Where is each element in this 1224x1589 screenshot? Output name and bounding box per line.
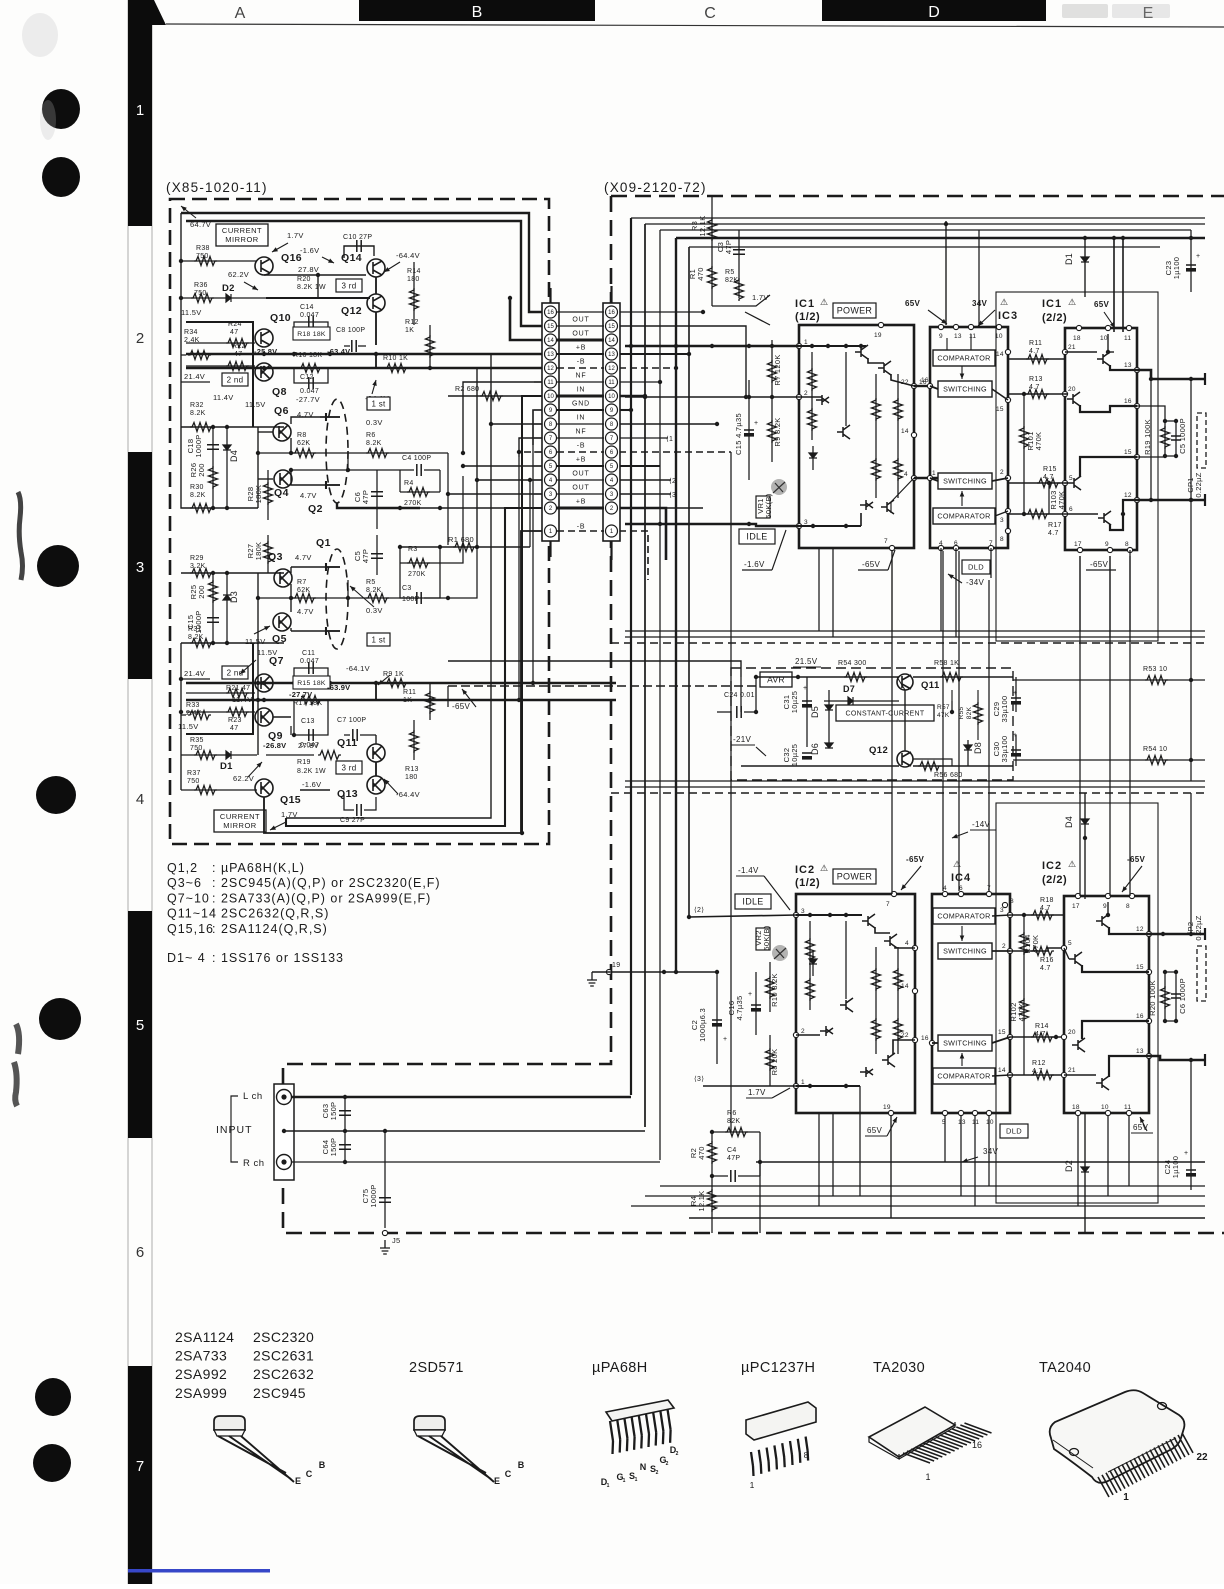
svg-text:12: 12 [1124,492,1132,499]
svg-text:2: 2 [804,390,808,397]
svg-text:Q3~6: Q3~6 [167,876,202,890]
svg-text:8: 8 [1010,898,1014,905]
svg-text:0.22µZ: 0.22µZ [1194,915,1203,940]
wire ic11 to ic21 risers [891,631,893,894]
svg-text:E: E [295,1476,301,1486]
svg-text:C8 100P: C8 100P [336,327,365,334]
wire right rails [1150,379,1152,500]
svg-text:470K: 470K [1034,432,1043,451]
switching box 2 [938,473,992,489]
svg-text:7: 7 [884,538,888,545]
ground J5 [382,1230,387,1235]
svg-text:17: 17 [1074,541,1082,548]
IC1 1/2 outline [799,325,914,548]
svg-text:R37: R37 [187,770,201,777]
svg-text:9: 9 [1103,903,1107,910]
svg-text:C11: C11 [302,650,315,657]
svg-text:13: 13 [547,352,554,358]
svg-text:D2: D2 [222,283,235,294]
wire IC1 bottom drops [818,548,820,631]
svg-text:R38: R38 [196,245,210,252]
svg-text:D1: D1 [220,761,233,772]
resistor R15 18K box [293,676,330,689]
svg-text:0.22µZ: 0.22µZ [1194,472,1203,497]
svg-text:: µPA68H(K,L): : µPA68H(K,L) [212,861,305,875]
wire left rail bottom [180,643,182,755]
jack L ch [277,1090,292,1105]
svg-text:62K: 62K [297,440,310,447]
svg-text:Q12: Q12 [341,305,362,317]
comparator box 4 [933,1068,995,1084]
wire q16 to q14 row [264,274,366,276]
wire IC1 pin22 to IC3 [914,385,930,387]
svg-text:D: D [928,4,940,21]
svg-text:R29: R29 [190,555,204,562]
wire thick row A [186,353,542,355]
faint stamp top right [1062,4,1108,18]
svg-text:8.2K: 8.2K [188,634,204,641]
svg-text:47: 47 [234,351,242,358]
svg-text:1K: 1K [405,327,414,334]
wire fan pin12 [476,368,478,547]
svg-text:2: 2 [136,330,144,347]
svg-text:65V: 65V [905,299,920,308]
svg-text:82K: 82K [966,706,973,719]
IC1 internals [799,345,866,347]
svg-text:⚠: ⚠ [820,297,828,307]
svg-text:10µ25: 10µ25 [790,744,799,767]
svg-text:3.2K: 3.2K [190,563,206,570]
wire thick row A low [186,682,616,684]
label 3rd stage low [336,761,362,774]
wire right fan extras [619,311,703,313]
IC1 pin19 [878,322,883,327]
svg-text:21: 21 [1068,1067,1076,1074]
svg-text:C: C [306,1469,313,1479]
svg-text:6: 6 [1069,506,1073,513]
svg-text:11: 11 [547,380,554,386]
svg-text:µPA68H: µPA68H [592,1360,648,1376]
svg-text:-14V: -14V [972,820,990,829]
svg-text:A: A [235,5,246,22]
svg-text:9: 9 [1105,541,1109,548]
svg-text:+: + [754,420,758,427]
svg-text:R11: R11 [403,689,416,696]
svg-text:C6 1000P: C6 1000P [1178,978,1187,1014]
wire fan pin4 [477,479,542,481]
svg-text:+: + [1196,253,1200,260]
svg-text:D2: D2 [1064,1160,1074,1172]
svg-text:13: 13 [954,333,962,340]
svg-text:4.7V: 4.7V [300,491,317,500]
svg-text:8.2K: 8.2K [190,492,206,499]
svg-text:8: 8 [1126,903,1130,910]
wire left strip stubs [534,311,542,313]
svg-text:16: 16 [608,310,615,316]
wire L ch line [292,1096,631,1099]
IC3 inner wires [946,338,948,350]
svg-text:1000µ6.3: 1000µ6.3 [698,1008,707,1042]
svg-text:4.7V: 4.7V [297,607,314,616]
svg-text:R53 10: R53 10 [1143,666,1167,673]
svg-text:33µ100: 33µ100 [1000,696,1009,723]
svg-text:: 2SC945(A)(Q,P) or 2SC2320(E,: : 2SC945(A)(Q,P) or 2SC2320(E,F) [212,876,441,890]
wire feed pin2 [625,396,799,398]
svg-text:15: 15 [998,1029,1006,1036]
svg-text:1: 1 [804,339,808,346]
svg-text:3: 3 [804,519,808,526]
svg-text:R5: R5 [725,269,735,276]
svg-text:47: 47 [230,329,238,336]
svg-text:62.2V: 62.2V [228,270,249,279]
svg-text:19: 19 [883,1104,891,1111]
svg-text:Q2: Q2 [308,503,323,515]
svg-text:2SC945: 2SC945 [253,1385,306,1401]
svg-text:R31: R31 [188,626,202,633]
svg-text:Q13: Q13 [337,788,358,800]
svg-text:Q12: Q12 [869,745,888,756]
svg-text:⚠: ⚠ [820,863,828,873]
svg-text:2SA733: 2SA733 [175,1348,227,1364]
wire band crossing verticals IC3-IC4 [942,551,944,891]
wire row r1 to strip [529,480,531,547]
svg-text:3: 3 [136,559,144,576]
svg-text:D3: D3 [229,591,239,603]
INPUT connector block [274,1084,294,1180]
svg-text:6: 6 [954,540,958,547]
svg-text:R35: R35 [190,737,204,744]
svg-text:IC3: IC3 [998,310,1018,322]
svg-text:21: 21 [1068,344,1076,351]
svg-text:OUT: OUT [572,485,589,492]
svg-text:12: 12 [1136,926,1144,933]
svg-text:R2 680: R2 680 [455,386,479,393]
svg-text:34V: 34V [983,1147,998,1156]
svg-text:C4: C4 [727,1147,737,1154]
svg-text:27.8V: 27.8V [298,741,319,750]
wire right rails b [1190,793,1192,934]
svg-text:0.3V: 0.3V [366,418,383,427]
svg-text:750: 750 [187,778,200,785]
svg-text:2 nd: 2 nd [227,375,244,384]
svg-text:-B: -B [577,443,586,450]
svg-text:R14: R14 [1035,1023,1049,1030]
svg-text:1: 1 [932,470,936,477]
svg-text:4.7V: 4.7V [295,553,312,562]
comparator box 2 [933,508,995,524]
svg-text:11: 11 [1124,335,1131,342]
svg-text:: 1SS176 or 1SS133: : 1SS176 or 1SS133 [212,951,344,965]
svg-text:-1.6V: -1.6V [302,780,321,789]
svg-text:(X85-1020-11): (X85-1020-11) [166,180,268,195]
grid bar D [822,0,1046,21]
svg-text:R13: R13 [405,766,419,773]
svg-text:TA2030: TA2030 [873,1360,925,1376]
svg-text:-27.7V: -27.7V [296,395,320,404]
svg-text:1K: 1K [403,697,412,704]
wire IC22 thick out 13b [1149,1056,1205,1060]
wire fan pin11 [463,382,542,453]
svg-text:E: E [494,1476,500,1486]
svg-text:B: B [319,1460,326,1470]
svg-text:0.047: 0.047 [300,388,319,395]
wire q11 q12 link [904,690,906,751]
svg-text:14: 14 [996,351,1004,358]
wire Q11 Q13 chain [375,762,377,776]
svg-text:21.4V: 21.4V [184,669,205,678]
wire R ch line [292,1161,660,1163]
svg-text:IC4: IC4 [951,872,971,884]
svg-text:2: 2 [656,1470,659,1476]
uPC1237H SIP package drawing [746,1402,816,1440]
svg-text:POWER: POWER [837,872,873,882]
svg-text:4.7µ35: 4.7µ35 [735,996,744,1021]
AVR label [760,672,792,687]
TA2040 package drawing [1050,1390,1185,1483]
svg-text:DLD: DLD [968,563,984,572]
svg-text:470: 470 [696,267,705,280]
IC1 pin14 [911,432,916,437]
svg-text:COMPARATOR: COMPARATOR [937,354,990,363]
svg-text:Q6: Q6 [274,405,289,417]
svg-text:2.4K: 2.4K [184,337,200,344]
TA2030 package drawing [869,1407,955,1457]
svg-text:IN: IN [577,415,586,422]
svg-text:3: 3 [1000,907,1004,914]
svg-text:R18 18K: R18 18K [297,331,326,338]
svg-text:100P: 100P [402,596,420,603]
svg-text:14: 14 [547,338,554,344]
svg-text:2SA992: 2SA992 [175,1366,227,1382]
svg-text:34V: 34V [972,299,987,308]
svg-text:22: 22 [901,1032,909,1039]
svg-text:-1.4V: -1.4V [738,866,759,875]
svg-text:C14: C14 [300,304,314,311]
svg-text:16: 16 [547,310,554,316]
component CP2 0.22u [1197,946,1206,1001]
svg-text:11: 11 [969,333,976,340]
svg-text:R3: R3 [408,546,418,553]
svg-text:16: 16 [1124,398,1132,405]
wire bus risers right [945,221,947,325]
svg-text:2: 2 [666,1461,669,1467]
svg-text:⚠: ⚠ [1000,297,1008,307]
top ruler line [166,24,1224,27]
svg-text:17: 17 [1072,903,1080,910]
svg-text:15: 15 [1136,964,1144,971]
svg-text:19: 19 [612,962,620,969]
wire thick row B low [186,699,616,701]
svg-text:3: 3 [1000,517,1004,524]
label 2nd stage low [222,666,248,679]
wire fan pin14 [510,298,542,340]
svg-text:D8: D8 [973,742,983,754]
wire IC12 thick out 13 [1137,370,1205,379]
wire IC1 pin4 to SW2 [914,477,941,479]
svg-text:8: 8 [804,1450,809,1460]
constant current label [836,705,934,721]
wire -65V long dashed [788,661,790,686]
uPA68H SIP package drawing [606,1400,674,1421]
svg-text:D1~ 4: D1~ 4 [167,951,206,965]
wire mid band row [740,677,742,712]
svg-text:1µ100: 1µ100 [1172,257,1181,280]
svg-text:2: 2 [1002,943,1006,950]
svg-text:IC1: IC1 [795,298,815,310]
svg-text:IC2: IC2 [1042,860,1062,872]
svg-text:Q16: Q16 [281,252,302,264]
svg-text:IC2: IC2 [795,864,815,876]
wire fan pin7 [519,438,542,457]
svg-text:R11: R11 [1029,340,1042,347]
svg-text:-64.4V: -64.4V [396,251,420,260]
wire tag 19 ground [606,969,611,974]
svg-text:⟨1: ⟨1 [666,435,673,443]
svg-text:14: 14 [998,1067,1006,1074]
svg-text:TA2040: TA2040 [1039,1360,1091,1376]
wire fan pin10 [522,396,542,833]
svg-text:150P: 150P [329,1138,338,1157]
wire Q14-Q12 [375,277,377,294]
wire IC22 thick out 12b [1149,933,1205,936]
svg-text:65V: 65V [1133,1123,1148,1132]
svg-text:+: + [1184,1150,1188,1157]
wire fan pin8 [491,423,542,425]
svg-text:⟨3: ⟨3 [669,491,676,499]
svg-text:R16: R16 [1040,957,1054,964]
svg-text:-1.6V: -1.6V [300,246,319,255]
svg-text:4.7: 4.7 [1029,348,1040,355]
svg-text:-63.9V: -63.9V [327,683,350,692]
wire IC3 bottom drops [940,548,942,631]
IC3 outline [930,327,1008,548]
svg-text:8.2K: 8.2K [190,410,206,417]
svg-text:µPC1237H: µPC1237H [741,1360,815,1376]
svg-text:15: 15 [547,324,554,330]
svg-text:Q10: Q10 [270,312,291,324]
label 2nd stage [222,373,248,386]
svg-text:2SD571: 2SD571 [409,1360,464,1376]
svg-text:Q15: Q15 [280,794,301,806]
svg-text:⚠: ⚠ [1068,859,1076,869]
svg-text:4: 4 [939,540,943,547]
svg-text:14: 14 [901,428,909,435]
svg-text:2SC2320: 2SC2320 [253,1329,314,1345]
svg-text:20: 20 [1068,1029,1076,1036]
svg-text:R1 680: R1 680 [448,535,474,544]
IC1 2/2 outer box [996,292,1158,641]
svg-text:9: 9 [939,333,943,340]
svg-text:65V: 65V [867,1126,882,1135]
wire IC12 thick out 12 [1137,499,1205,502]
svg-text:11: 11 [972,1119,979,1126]
svg-text:+: + [1013,732,1017,739]
svg-text:DLD: DLD [1006,1127,1022,1136]
svg-text:R8: R8 [297,432,307,439]
svg-text:D1: D1 [1064,253,1074,265]
svg-text:13: 13 [958,1119,966,1126]
svg-text:R17: R17 [1048,522,1062,529]
svg-text:R12: R12 [405,319,419,326]
svg-text:11.4V: 11.4V [213,393,234,402]
svg-text:Q11: Q11 [921,680,940,691]
FET Q2 envelope [326,399,348,503]
wire tag 2 feed [689,915,796,917]
svg-text:1000P: 1000P [194,434,203,457]
svg-text:64.7V: 64.7V [190,220,211,229]
wire lower riser d [448,547,477,598]
svg-text:-21V: -21V [733,735,751,744]
svg-text:470: 470 [697,1146,706,1159]
svg-text:270K: 270K [408,571,426,578]
svg-text:-65V: -65V [1090,560,1108,569]
svg-text:C7 100P: C7 100P [337,717,366,724]
svg-text:12: 12 [547,366,554,372]
svg-text:19: 19 [874,332,882,339]
svg-text:-B: -B [577,524,586,531]
svg-text:+: + [1013,690,1017,697]
svg-text:4.7: 4.7 [1048,530,1059,537]
svg-text:2SA999: 2SA999 [175,1385,227,1401]
wire 11.5V thick low [186,643,253,734]
connector strip left CN-A [542,303,559,541]
svg-text:SWITCHING: SWITCHING [943,947,987,956]
svg-text:16: 16 [921,1035,929,1042]
svg-text:R16 18K: R16 18K [293,352,322,359]
svg-text:COMPARATOR: COMPARATOR [937,1072,990,1081]
svg-text:5: 5 [136,1017,144,1034]
wire Q6 Q4 chain [257,427,259,508]
svg-text:10: 10 [547,394,554,400]
page edge black bar left [128,0,152,1584]
svg-text:(X09-2120-72): (X09-2120-72) [604,180,707,195]
grid bar B [359,0,595,21]
svg-text:11.5V: 11.5V [257,648,278,657]
svg-text:C10 27P: C10 27P [343,234,372,241]
svg-text:Q1,2: Q1,2 [167,861,198,875]
wire ic2 bottom drops [818,1113,820,1206]
svg-text:16: 16 [919,379,927,386]
svg-text:4: 4 [136,791,144,808]
svg-text:R6: R6 [366,432,376,439]
svg-text:R34: R34 [184,329,198,336]
switching box 1 [938,381,992,397]
svg-text:47P: 47P [727,1155,740,1162]
svg-text:-34V: -34V [966,578,984,587]
svg-text:1 st: 1 st [371,635,386,644]
label 1st stage [367,397,390,410]
svg-text:5: 5 [1069,475,1073,482]
svg-text:8.2K 1W: 8.2K 1W [297,284,326,291]
svg-text:2: 2 [801,1028,805,1035]
svg-text:SWITCHING: SWITCHING [943,1039,987,1048]
wire bus line 2 [645,223,1205,225]
IC2 internals [862,914,875,928]
svg-text:+B: +B [576,457,586,464]
svg-text:C15 4.7µ35: C15 4.7µ35 [734,413,743,455]
svg-text:1.7V: 1.7V [748,1088,766,1097]
svg-text:C24 0.01: C24 0.01 [724,692,755,699]
svg-text:-25.8V: -25.8V [254,347,277,356]
svg-text:470K: 470K [1057,491,1066,510]
svg-text:IDLE: IDLE [742,897,763,907]
punch holes [42,89,80,129]
svg-text:INPUT: INPUT [216,1124,253,1136]
DLD label bottom [1000,1124,1028,1138]
svg-text:Q1: Q1 [316,537,331,549]
wire lower riser a [518,457,520,700]
svg-text:10: 10 [608,394,615,400]
